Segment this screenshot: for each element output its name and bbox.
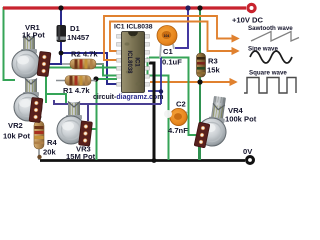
svg-text:VR2: VR2 <box>8 121 23 130</box>
svg-text:Sine wave: Sine wave <box>248 46 278 53</box>
wire: orange square-wave from IC right pin to arrow <box>150 81 236 83</box>
svg-text:R4: R4 <box>47 138 57 147</box>
waveform sine <box>250 51 292 63</box>
svg-text:Square wave: Square wave <box>249 70 287 77</box>
svg-text:15M Pot: 15M Pot <box>66 152 96 161</box>
wire: +10V red rail <box>3 6 246 9</box>
svg-text:ICL8038: ICL8038 <box>126 50 132 74</box>
potentiometer VR4 <box>194 96 230 148</box>
terminal +10V <box>246 3 256 13</box>
svg-text:4.7nF: 4.7nF <box>168 126 188 135</box>
svg-text:20k: 20k <box>43 148 56 157</box>
svg-text:C1: C1 <box>163 47 173 56</box>
wire: orange inner box from IC pin around top to sine arrow <box>110 22 238 52</box>
node: junction dot on +10V rail at R3 <box>197 5 202 10</box>
svg-text:10k Pot: 10k Pot <box>3 132 30 141</box>
resistor R1 <box>56 76 96 86</box>
svg-text:Sawtooth wave: Sawtooth wave <box>248 25 293 32</box>
wire: green from VR1 pins to IC pin 5 <box>48 67 117 69</box>
svg-text:+10V DC: +10V DC <box>232 16 264 25</box>
wire: navy long wire VR2 wiper along y=104 to C1 leg line, branch to VR3 board <box>54 100 161 121</box>
wire: green from IC to C2 left leg <box>149 76 169 161</box>
terminal 0V <box>245 155 255 165</box>
resistor R3 <box>197 53 206 77</box>
svg-text:R3: R3 <box>208 57 218 66</box>
potentiometer VR2 <box>14 79 43 123</box>
resistor R2 <box>62 59 104 69</box>
wire: navy from rail to D1 and below to junction <box>49 8 61 64</box>
svg-text:IC1 ICL8038: IC1 ICL8038 <box>114 24 153 31</box>
svg-text:0.1uF: 0.1uF <box>162 58 182 67</box>
wire: green R3 line continues to bottom rail <box>199 82 201 160</box>
wire: green VR4 pins to bottom rail <box>198 144 200 160</box>
resistor R4 <box>34 113 44 160</box>
wire: orange outer box from IC pin around top to sawtooth arrow <box>104 16 238 60</box>
svg-text:15k: 15k <box>207 66 220 75</box>
node: junction dot on +10V rail at C1 wire <box>185 5 190 10</box>
potentiometer VR3 <box>57 102 92 147</box>
wire: green VR1 bottom pin down to VR2 area <box>46 72 66 104</box>
waveform square <box>244 78 296 94</box>
node: junction dot at R1 right lead <box>93 76 98 81</box>
svg-text:IC1: IC1 <box>134 57 140 67</box>
svg-text:1N457: 1N457 <box>67 33 89 42</box>
svg-text:0V: 0V <box>243 147 253 156</box>
svg-text:1k Pot: 1k Pot <box>22 31 45 40</box>
wire: navy from D1 junction right and down into IC pin <box>61 53 117 84</box>
capacitor C1 disc <box>157 26 177 59</box>
svg-text:D1: D1 <box>70 24 80 33</box>
wire: black ground overlay across watermark <box>153 91 156 102</box>
node: junction dot below D1 <box>59 51 64 56</box>
svg-text:R1 4.7k: R1 4.7k <box>63 86 90 95</box>
wire: green from R1 dot into IC <box>90 79 117 160</box>
wire: green R2 right lead to IC <box>95 64 117 76</box>
svg-text:C2: C2 <box>176 100 186 109</box>
wire: purple from rail down to C1 right leg <box>175 8 188 48</box>
diode D1 <box>57 25 67 42</box>
wire: navy from C1 left leg down across watermark, stub from IC pin 11 <box>148 57 161 104</box>
waveform sawtooth <box>251 32 299 42</box>
wire: black IC ground to 0V rail <box>149 63 154 160</box>
node: junction dot on +10V rail at D1 <box>58 5 63 10</box>
potentiometer VR1 <box>12 36 51 79</box>
wire: 0V black rail <box>40 159 245 162</box>
wire: green from +10V rail corner down left edge to VR1 case <box>4 7 16 80</box>
wire: green from IC pin along C1 bottom, down right side to VR4 board <box>148 58 197 136</box>
capacitor C2 disc <box>164 108 187 125</box>
wire: green R3 line from rail down to junction <box>199 8 201 82</box>
svg-text:100k Pot: 100k Pot <box>225 115 257 124</box>
node: junction dot at R3 bottom / square-wave output <box>197 79 202 84</box>
svg-text:104: 104 <box>164 34 170 38</box>
svg-text:R2 4.7k: R2 4.7k <box>71 50 98 59</box>
op-amp/IC U1 ICL8038 DIP package <box>117 32 150 93</box>
